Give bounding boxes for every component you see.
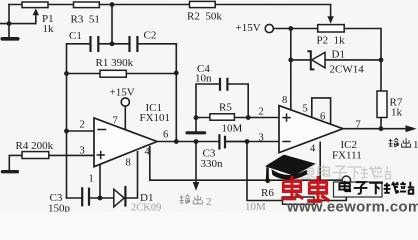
svg-text:150p: 150p [48,203,71,213]
svg-text:2: 2 [80,120,85,131]
svg-text:2CW14: 2CW14 [330,64,365,76]
svg-text:6: 6 [320,112,325,123]
svg-text:10n: 10n [195,73,212,85]
svg-text:R2 50k: R2 50k [187,11,222,23]
svg-text:7: 7 [113,116,118,127]
svg-text:1: 1 [413,139,418,151]
svg-text:FX111: FX111 [332,150,362,162]
svg-text:+15V: +15V [110,87,135,99]
svg-text:C2: C2 [144,30,157,42]
svg-text:2CK09: 2CK09 [131,203,161,213]
svg-text:10M: 10M [222,123,243,135]
svg-text:C1: C1 [69,30,82,42]
svg-text:R3 51: R3 51 [71,14,100,26]
svg-text:R4 200k: R4 200k [16,140,54,152]
svg-text:P2 1k: P2 1k [317,35,346,47]
svg-text:1k: 1k [391,107,403,119]
svg-text:330n: 330n [201,158,224,170]
svg-text:5: 5 [303,104,308,115]
svg-text:4: 4 [310,144,316,155]
svg-text:2: 2 [259,107,264,118]
svg-text:1k: 1k [43,23,55,35]
svg-text:6: 6 [163,130,168,141]
svg-text:1: 1 [89,174,94,185]
svg-text:D1: D1 [332,49,345,61]
svg-text:www.eeworm.com: www.eeworm.com [286,199,418,213]
svg-text:3: 3 [259,133,264,144]
svg-text:R5: R5 [219,102,232,114]
svg-text:FX101: FX101 [140,112,171,124]
svg-text:8: 8 [126,158,131,169]
svg-text:+15V: +15V [236,22,261,34]
svg-text:3: 3 [80,146,85,157]
svg-text:R6: R6 [261,187,274,199]
svg-text:10M: 10M [245,201,266,212]
svg-text:R1 390k: R1 390k [96,57,134,69]
svg-text:4: 4 [145,147,151,158]
svg-text:7: 7 [356,120,361,131]
svg-text:8: 8 [282,95,287,106]
svg-text:2: 2 [206,196,212,208]
